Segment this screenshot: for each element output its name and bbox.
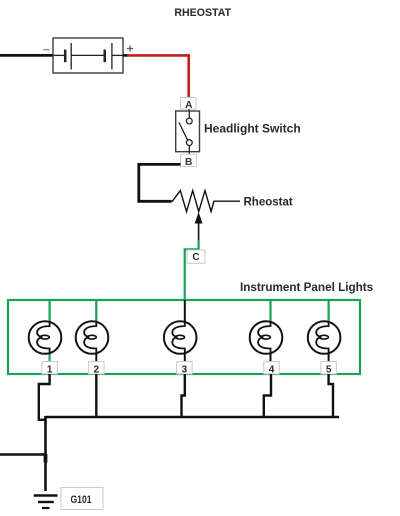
svg-text:B: B bbox=[185, 157, 192, 168]
svg-text:2: 2 bbox=[94, 365, 100, 376]
svg-text:G101: G101 bbox=[71, 494, 92, 506]
svg-text:C: C bbox=[192, 252, 199, 263]
svg-text:4: 4 bbox=[269, 365, 275, 376]
svg-text:1: 1 bbox=[47, 365, 53, 376]
svg-text:Headlight Switch: Headlight Switch bbox=[204, 122, 301, 136]
svg-text:RHEOSTAT: RHEOSTAT bbox=[174, 7, 231, 19]
svg-text:3: 3 bbox=[182, 365, 188, 376]
svg-text:Rheostat: Rheostat bbox=[244, 196, 293, 208]
svg-text:Instrument Panel Lights: Instrument Panel Lights bbox=[240, 281, 374, 294]
svg-text:5: 5 bbox=[326, 365, 332, 376]
